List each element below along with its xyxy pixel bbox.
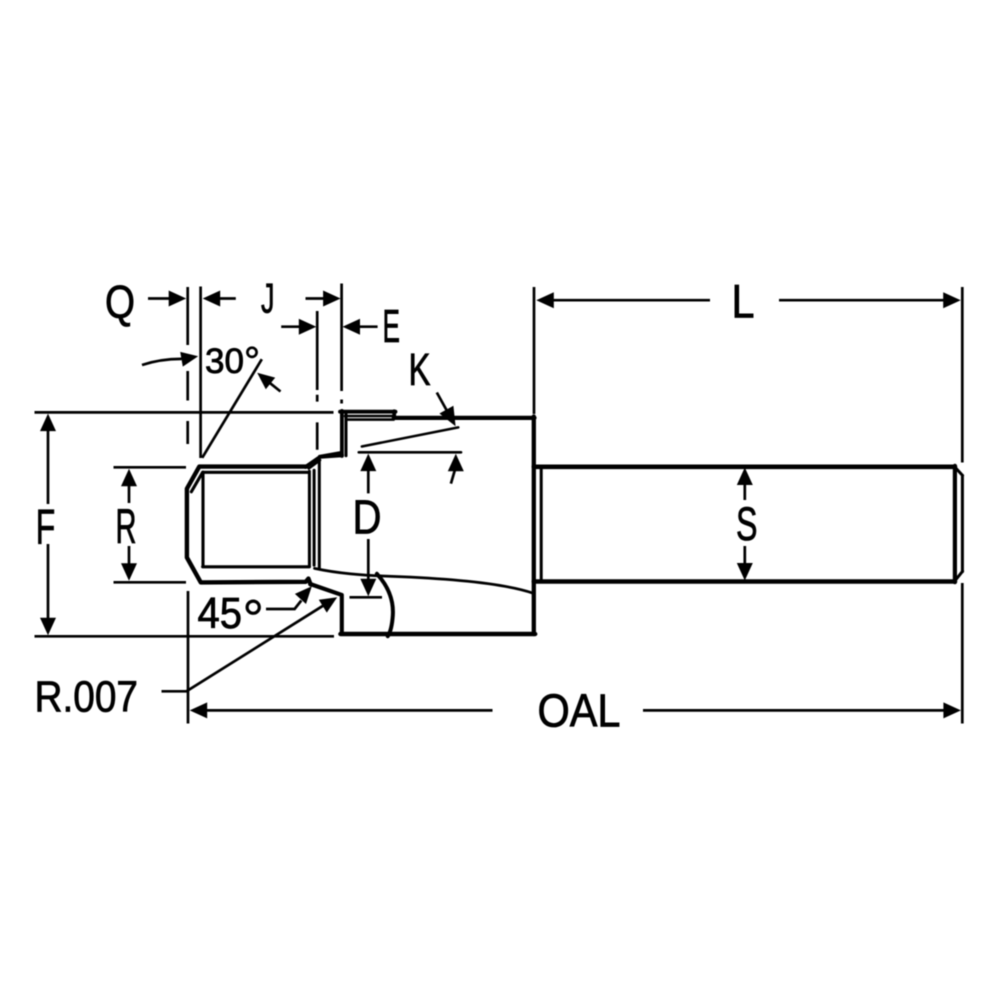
K small up-arrowhead <box>448 454 464 472</box>
body bottom edge <box>340 632 535 636</box>
dimension L / OAL extension line right <box>961 287 964 724</box>
shank end face <box>953 466 957 582</box>
dimension Q arrow shafts <box>148 297 236 300</box>
svg-text:30: 30 <box>205 342 244 381</box>
dimension R extension line bottom <box>114 581 187 584</box>
45 chamfer and lower cutter step <box>310 584 342 633</box>
30 degree curved leader arrowhead <box>180 352 198 367</box>
dimension F arrowheads <box>40 414 56 432</box>
dimension D arrowheads <box>360 454 376 472</box>
dimension F extension line bottom <box>35 635 335 638</box>
30 degree curved leader shaft <box>142 359 182 365</box>
dimension D bottom reference line <box>350 596 383 599</box>
dimension Q arrowheads <box>169 291 187 307</box>
R.007 leader shaft <box>162 605 325 692</box>
30 degree slant arrowhead <box>257 373 275 390</box>
dimension R line <box>128 484 131 566</box>
dimension J / E extension line (cutter face) <box>340 284 343 404</box>
step from cutter top to body top <box>392 411 396 418</box>
dimension OAL arrowheads <box>190 702 208 718</box>
flute curve <box>315 568 534 593</box>
dimension L extension line left <box>533 287 536 414</box>
svg-text:Q: Q <box>105 276 135 328</box>
R.007 leader arrowhead <box>319 597 337 612</box>
dimension S arrowheads <box>737 468 753 486</box>
body top edge <box>394 416 535 420</box>
dimension L arrowheads <box>536 292 554 308</box>
shank left face line <box>540 467 543 581</box>
svg-text:S: S <box>736 497 758 550</box>
dimension F extension line top <box>35 411 334 414</box>
cutter left edge <box>340 411 344 456</box>
dimension S line <box>743 483 746 565</box>
svg-text:L: L <box>732 275 755 328</box>
dimension D line <box>367 470 370 581</box>
dimension J arrowhead <box>323 291 341 307</box>
shank bottom edge <box>534 579 955 584</box>
pilot thread outer profile <box>187 467 311 585</box>
dimension E extension line left <box>316 311 319 450</box>
30 degree chamfer land to cutter face <box>306 455 343 467</box>
svg-text:D: D <box>353 492 382 545</box>
body right edge <box>532 417 536 635</box>
45 degree leader shaft <box>266 601 301 610</box>
dimension R arrowheads <box>121 469 137 487</box>
dimension Q extension line left (dashed) <box>186 287 189 444</box>
K leader arrowhead <box>439 406 455 427</box>
svg-text:R: R <box>116 500 137 554</box>
svg-text:J: J <box>261 274 275 321</box>
dimension J arrow shafts <box>306 297 326 300</box>
svg-text:R.007: R.007 <box>35 673 139 722</box>
cutter top edge <box>340 410 396 414</box>
K leader shaft <box>437 393 447 411</box>
K angle slant line <box>362 427 459 446</box>
degree ring of 45 <box>247 601 259 613</box>
dimension OAL line <box>205 709 945 712</box>
30 degree slant arrow shaft <box>270 383 281 392</box>
svg-text:K: K <box>409 344 431 395</box>
svg-text:F: F <box>36 500 56 554</box>
svg-text:OAL: OAL <box>538 685 621 737</box>
K small up-arrow shaft <box>451 470 455 484</box>
shank top edge <box>534 464 955 469</box>
cutter corner radius arc <box>377 574 393 636</box>
dimension E arrow shafts <box>281 325 377 328</box>
45 degree leader arrowhead <box>295 586 312 604</box>
dimension E arrowheads <box>299 319 317 335</box>
thread end vertical lines <box>308 471 311 566</box>
dimension L line <box>552 299 945 302</box>
K reference horizontal line <box>359 451 461 454</box>
degree ring of 30 <box>247 348 256 357</box>
svg-text:E: E <box>383 300 401 352</box>
dimension R extension line top <box>114 466 187 469</box>
dimension Q extension line right <box>199 287 202 459</box>
30 degree angle slant line <box>202 359 262 458</box>
shank end chamfer lines <box>955 467 963 581</box>
svg-text:45: 45 <box>198 589 243 638</box>
dimension F line <box>47 429 50 620</box>
dimension OAL extension line left <box>187 591 190 724</box>
pilot thread minor (inner) lines <box>191 472 309 567</box>
